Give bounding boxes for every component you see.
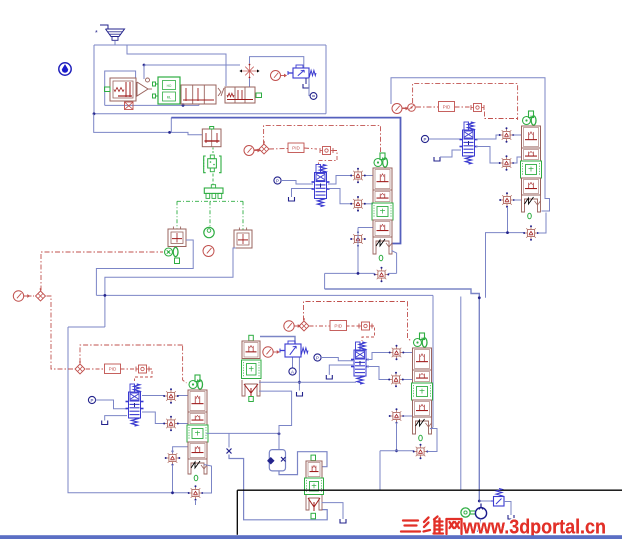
- green dash drop K1: [176, 201, 178, 228]
- compensator X4C: [188, 485, 204, 501]
- tank line black: [237, 489, 622, 491]
- dash diamondC up: [41, 252, 163, 291]
- dash chainE up: [304, 302, 408, 321]
- wire stackD return drop: [379, 451, 381, 490]
- check loop component: [269, 450, 285, 471]
- port V3 right: [256, 93, 262, 98]
- wire X2B-stackB: [513, 157, 522, 163]
- dash diamondE-PID D: [310, 325, 330, 327]
- dash boxA to spool1: [319, 151, 338, 165]
- reducing valve T1: [202, 129, 221, 147]
- compensator X3D: [389, 408, 405, 424]
- relief valve RV2: [285, 344, 301, 357]
- wire K2 out: [105, 248, 236, 327]
- compensator X3A: [350, 231, 366, 247]
- dash gaugeE-diamond: [295, 325, 300, 327]
- wire spool1-X1A: [328, 176, 351, 185]
- wire return rail y273b: [389, 272, 397, 274]
- svg-text:A: A: [291, 369, 294, 374]
- green link T1-T2: [212, 148, 214, 155]
- drain bracket RV2: [297, 392, 303, 396]
- wire P1 to spool1: [281, 181, 313, 185]
- valve stack C: [195, 375, 200, 382]
- diamond chainC: [36, 288, 46, 301]
- wire return drop x325: [324, 273, 326, 289]
- wire X2A-stackA: [365, 203, 373, 205]
- dash chainE drop stackD: [408, 302, 412, 342]
- wire riser x171: [170, 118, 172, 133]
- compensator X1D: [389, 345, 405, 361]
- valve stack D: [420, 333, 425, 340]
- wire X2D-stackD: [403, 379, 413, 381]
- wire spool1 drain: [292, 189, 314, 198]
- drain bracket spool2: [434, 157, 440, 161]
- tank funnel T0: [106, 29, 125, 37]
- pilot valve V1: [110, 78, 136, 101]
- wire P2-spool2: [429, 138, 461, 140]
- dash boxD to spool3: [362, 326, 375, 341]
- PID box chainC: [105, 364, 121, 374]
- charge relief valve: [496, 489, 502, 497]
- compensator K1: [168, 229, 186, 247]
- wire stackC work A: [207, 432, 280, 434]
- wire funnel stem: [114, 41, 116, 45]
- wire X2C-stackC: [178, 423, 188, 425]
- main valve V3: [225, 87, 255, 103]
- svg-text:PID: PID: [443, 104, 451, 109]
- dash diamondC down: [47, 296, 75, 369]
- wire X1D-stackD: [404, 352, 413, 354]
- check valve CV1: [137, 82, 148, 96]
- wire pilot rail y65: [144, 64, 240, 66]
- dash box border x182: [183, 346, 187, 383]
- sensor pair K1: [165, 247, 179, 256]
- wire pilot rail y382: [259, 381, 356, 383]
- wire stackB return drop: [485, 233, 487, 298]
- compensator K2: [234, 230, 252, 248]
- green dash drop K2: [242, 201, 244, 229]
- node X3D join: [395, 449, 398, 452]
- pressure sensor P2: [421, 135, 428, 142]
- dash gaugeA-diamond: [254, 149, 259, 152]
- wire X3B-stackB: [514, 199, 522, 201]
- dash gaugeC-diamond: [24, 295, 34, 297]
- wire bottom rail y114: [94, 113, 326, 115]
- wire drop to T-valve: [94, 114, 203, 135]
- wire relief drain: [504, 502, 511, 516]
- compensator X4D: [413, 444, 429, 460]
- svg-text:PID: PID: [334, 323, 342, 328]
- dash PIDC-box: [121, 368, 138, 370]
- wire X3C-stackC: [173, 447, 188, 454]
- compensator X3B: [499, 192, 515, 208]
- dash PIDA-box: [304, 148, 317, 149]
- tank line left edge: [236, 490, 238, 535]
- node drain: [182, 104, 185, 107]
- proportional spool2: [460, 122, 478, 164]
- wire pump relief: [479, 500, 493, 502]
- wire drain-spool2: [440, 150, 461, 157]
- wire to stackE bottom: [229, 455, 327, 520]
- proportional spool4: [126, 384, 144, 426]
- green square K1: [175, 258, 180, 264]
- electric motor M: [461, 508, 470, 517]
- gauge chainC: [13, 291, 30, 301]
- wire X3A-stackA: [358, 227, 373, 229]
- wire X4B right: [538, 213, 546, 234]
- wire branch x127: [127, 45, 226, 86]
- wire spool3-X2D: [367, 367, 389, 380]
- wire x-valve top: [250, 57, 304, 68]
- wire spool4-X1C: [142, 395, 164, 397]
- wire top rail y45: [94, 44, 326, 46]
- wire left frame drop: [68, 327, 189, 493]
- green control block G1: [158, 77, 180, 104]
- wire stackB return rail: [485, 232, 524, 234]
- node pump join: [478, 296, 481, 299]
- wire to funnel: [100, 25, 108, 29]
- dash gaugeB-junction: [402, 107, 408, 109]
- PID box chainB: [439, 102, 455, 112]
- main pump: [475, 508, 486, 519]
- dash feedback C: [80, 345, 183, 363]
- node cross294: [104, 294, 107, 297]
- green dash rail: [177, 200, 243, 202]
- svg-text:*: *: [95, 30, 98, 37]
- compensator X4B: [523, 225, 539, 241]
- gauge below MP: [203, 246, 214, 257]
- wire spool2-X1B: [476, 135, 500, 139]
- green link T2-manifold: [212, 174, 214, 185]
- sensor A2: [292, 358, 294, 368]
- wire top-right rail: [391, 78, 550, 211]
- PID box chainA: [288, 143, 304, 153]
- svg-text:HO: HO: [167, 84, 172, 88]
- bypass orifice: [125, 102, 134, 110]
- wire loop out: [279, 452, 327, 475]
- compensator X2B: [499, 155, 515, 171]
- dash junction-PID B: [416, 106, 438, 108]
- junction circle chainB: [408, 104, 416, 112]
- wire stackF out: [259, 391, 292, 434]
- compensator X3C: [165, 450, 181, 466]
- watermark 3dportal: [403, 518, 418, 523]
- gauge chainE: [284, 321, 301, 331]
- wire X3A bus: [357, 228, 359, 274]
- wire pump drain: [480, 519, 482, 527]
- drain bracket stackE: [340, 519, 346, 523]
- wire stackF-RV2 top: [260, 337, 295, 344]
- wire branch x229: [228, 433, 230, 447]
- wire left frame x94: [93, 45, 95, 114]
- wire spool3 drain: [329, 365, 353, 375]
- wire return rail y273: [325, 272, 375, 274]
- main valve V2: [181, 85, 216, 104]
- wire spool3-X1D: [367, 353, 390, 360]
- svg-text:P: P: [424, 137, 427, 142]
- gauge RV2: [263, 347, 280, 357]
- wire spool1-X2A: [328, 189, 351, 204]
- dash boxB down: [485, 112, 518, 119]
- svg-text:PID: PID: [109, 367, 117, 372]
- wire K1 out: [96, 240, 193, 295]
- oil drop icon: [59, 63, 71, 75]
- pressure sensor P1: [274, 177, 281, 184]
- node pilot junction: [143, 64, 146, 67]
- sensor circle S1: [310, 93, 317, 100]
- wire X1A-stackA: [365, 175, 373, 177]
- junction X mark: [227, 449, 232, 454]
- svg-text:P: P: [316, 355, 319, 360]
- dash diamondA-PID: [269, 148, 288, 151]
- compensator X2D: [388, 372, 404, 388]
- node RV2 drain: [298, 381, 301, 384]
- compensator X2A: [350, 196, 366, 212]
- wire X4D right: [428, 429, 438, 452]
- compensator X2C: [163, 416, 179, 432]
- diamond chainE: [299, 318, 309, 331]
- drain bracket spool4: [102, 421, 108, 425]
- wire RV2 drain: [298, 358, 300, 391]
- proportional spool1: [312, 165, 330, 207]
- wire inner frame: [105, 71, 136, 105]
- compensator X4A: [374, 267, 390, 283]
- wire right bus x433: [430, 295, 433, 429]
- diamond2 chainC: [75, 361, 85, 374]
- wire RV1 drain: [305, 78, 307, 84]
- wire x-valve to V3: [249, 79, 251, 88]
- node loop join: [278, 432, 281, 435]
- compensator X1A: [350, 168, 366, 184]
- dash PIDD-box: [347, 325, 361, 327]
- green dash drop pump: [209, 201, 211, 226]
- wire pilot drop x144: [143, 65, 145, 79]
- wire drain rail y105: [105, 104, 199, 106]
- wire spool2-X2B: [476, 147, 500, 164]
- wire right bus x460: [460, 297, 462, 490]
- relief valve RV1: [293, 68, 309, 78]
- gauge G1: [271, 71, 288, 81]
- svg-text:ML: ML: [167, 96, 172, 100]
- wire cross rail y294: [96, 294, 433, 296]
- pressure sensor P3: [314, 354, 321, 361]
- gauge chainA: [244, 146, 261, 156]
- transfer box chainD: [359, 322, 372, 330]
- wire X4C stub: [195, 500, 197, 505]
- pressure sensor P4: [88, 396, 95, 403]
- pump pressure valve stackF: [249, 335, 254, 341]
- node T-branch: [168, 131, 171, 134]
- compensator X1C: [163, 388, 179, 404]
- node pump top: [478, 500, 481, 503]
- drain bracket spool1: [289, 197, 295, 201]
- wire stub v2 bottom: [182, 103, 184, 105]
- transfer box chainB: [471, 104, 484, 112]
- compensator X1B: [499, 127, 515, 143]
- drain bracket relief: [508, 515, 514, 519]
- node X3C join: [171, 491, 174, 494]
- transfer box chainA: [320, 147, 333, 155]
- wire stackD return rail: [380, 450, 414, 452]
- green block T2: [208, 159, 217, 168]
- flow X-valve XF1: [245, 67, 254, 76]
- wire stackE drain: [322, 503, 344, 519]
- wire X3B down: [507, 207, 509, 233]
- node left bottom: [93, 112, 96, 115]
- wire X3D-stackD: [403, 415, 413, 417]
- wire RV1 sensor: [309, 78, 311, 96]
- wire spool4 drain: [105, 416, 127, 421]
- dash feedback B up: [413, 84, 518, 120]
- drain bracket spool3: [326, 375, 332, 379]
- dash diamond2-PID: [86, 368, 104, 370]
- transfer box chainC: [136, 365, 149, 373]
- metering pump MP: [204, 227, 214, 237]
- drain bracket RV1: [303, 84, 309, 88]
- bottom blue band: [0, 535, 622, 539]
- wire X3D down: [396, 423, 398, 451]
- dash boxC to spool4: [135, 369, 153, 381]
- wire main return y289: [325, 289, 480, 502]
- dash PID-box B: [455, 106, 470, 108]
- pump pilot valve stackE: [311, 455, 316, 461]
- valve stack B: [529, 111, 534, 118]
- wire main supply thick: [171, 118, 400, 244]
- wire X1B-stackB: [513, 134, 522, 136]
- svg-text:www.3dportal.cn: www.3dportal.cn: [462, 516, 606, 539]
- wire stackA bottom loop: [392, 251, 397, 274]
- dash feedback A: [264, 126, 381, 152]
- svg-text:PID: PID: [292, 146, 300, 151]
- wire X1C-stackC: [178, 395, 188, 397]
- svg-text:P: P: [91, 398, 94, 403]
- wire P4-spool4: [96, 400, 127, 409]
- wire P3-spool3: [321, 358, 353, 361]
- node return A: [357, 272, 360, 275]
- wire X3C down: [172, 465, 174, 493]
- wire right frame x326: [325, 45, 327, 114]
- wire left frame bottom: [68, 326, 105, 328]
- node stackB return: [506, 231, 509, 234]
- drain bracket pump: [478, 528, 484, 532]
- wire stub V2 bottom: [198, 104, 200, 106]
- wire loop comp in: [278, 434, 280, 450]
- valve stack A: [380, 153, 385, 160]
- svg-text:P: P: [276, 178, 279, 183]
- gauge chainB: [392, 104, 409, 114]
- PID box chainD: [330, 321, 347, 331]
- proportional spool3: [351, 342, 369, 384]
- wire stackC bottom: [203, 465, 212, 494]
- wire spool4-X2C: [142, 412, 164, 424]
- flow manifold: [204, 188, 223, 193]
- diamond chainA: [259, 141, 269, 154]
